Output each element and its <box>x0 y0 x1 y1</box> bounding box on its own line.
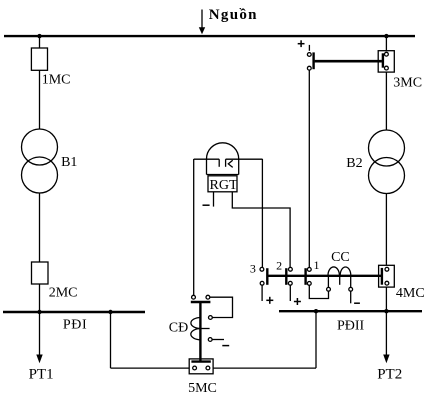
svg-text:B1: B1 <box>61 155 77 170</box>
svg-text:PT1: PT1 <box>29 367 54 383</box>
svg-text:PĐII: PĐII <box>337 318 365 333</box>
svg-text:3: 3 <box>250 261 256 275</box>
svg-text:4MC: 4MC <box>396 286 425 301</box>
svg-text:RGT: RGT <box>210 178 238 193</box>
svg-text:1MC: 1MC <box>42 73 71 88</box>
svg-text:2: 2 <box>276 259 282 273</box>
svg-text:PT2: PT2 <box>377 367 402 383</box>
svg-text:B2: B2 <box>346 156 362 171</box>
svg-text:Nguồn: Nguồn <box>209 7 258 23</box>
svg-text:2MC: 2MC <box>49 286 78 301</box>
svg-text:CC: CC <box>331 250 350 265</box>
svg-text:5MC: 5MC <box>188 381 217 396</box>
svg-text:CĐ: CĐ <box>169 321 188 336</box>
svg-text:PĐI: PĐI <box>63 317 87 332</box>
svg-text:3MC: 3MC <box>393 76 422 91</box>
svg-text:1: 1 <box>314 258 320 272</box>
